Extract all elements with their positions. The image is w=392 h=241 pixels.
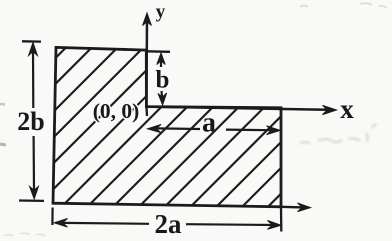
dimension 2b: lower stem and down arrow xyxy=(30,136,39,199)
svg-text:(0, 0): (0, 0) xyxy=(93,99,140,123)
dimension a: left arrow and line xyxy=(148,125,201,133)
dimension 2b: top tick xyxy=(22,40,41,43)
extension line bottom-left xyxy=(51,208,53,226)
dimension 2a: line and right arrow xyxy=(186,221,281,230)
outline of L-shaped lamina xyxy=(53,47,281,206)
scan smudge right-middle xyxy=(300,125,377,144)
dimension 2b: bottom tick xyxy=(19,199,44,202)
dimension b: down arrow xyxy=(158,91,167,105)
svg-text:a: a xyxy=(202,108,216,139)
scan smudge bottom-left xyxy=(4,233,45,236)
svg-text:y: y xyxy=(156,2,166,23)
dimension a: line and right arrow xyxy=(226,126,280,135)
dimension b: up arrow xyxy=(157,53,165,67)
x-axis xyxy=(146,105,336,114)
dimension b: top tick xyxy=(147,50,170,53)
svg-text:2a: 2a xyxy=(155,209,183,239)
svg-text:2b: 2b xyxy=(17,107,44,136)
svg-text:b: b xyxy=(156,67,170,94)
hatching of L-shaped lamina xyxy=(0,40,392,220)
origin stub below x-axis xyxy=(145,107,148,116)
dimension 2a: left arrow and line xyxy=(54,219,149,228)
bottom edge extension arrow xyxy=(281,203,311,212)
scan mark left edge xyxy=(0,144,6,145)
dimension 2b: up arrow and upper stem xyxy=(29,43,38,109)
svg-text:x: x xyxy=(340,94,354,124)
y-axis xyxy=(143,13,152,107)
extension line bottom-right xyxy=(280,207,283,232)
scan smudge top-right xyxy=(300,3,387,8)
